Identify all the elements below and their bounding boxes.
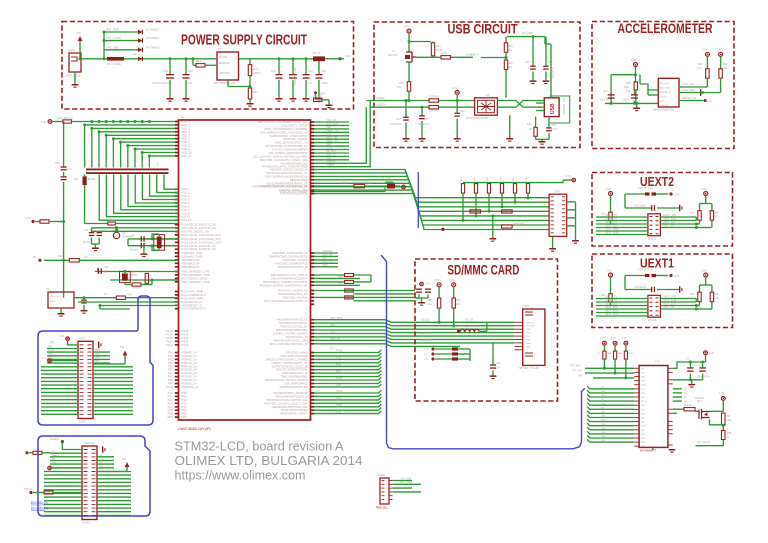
wire ext left rows [47, 348, 78, 350]
sd detect cluster [431, 347, 434, 350]
svg-text:UEXT_INT: UEXT_INT [663, 306, 675, 309]
section box UEXT1 [592, 254, 733, 328]
resistor R20 inline [502, 225, 512, 228]
svg-text:TFT: TFT [655, 360, 660, 364]
svg-text:+5V_J-LINK: +5V_J-LINK [106, 36, 121, 40]
resistor R42 [535, 117, 537, 128]
svg-text:PWR_SEL: PWR_SEL [376, 507, 388, 510]
connector PWR jack [69, 53, 81, 72]
svg-text:R20 100R: R20 100R [514, 224, 525, 226]
wire I2C2_SCL [679, 86, 707, 88]
svg-text:1uF: 1uF [496, 367, 501, 370]
svg-text:INT2 SDA: INT2 SDA [660, 87, 670, 90]
svg-text:PE7: PE7 [336, 369, 341, 373]
capacitor C44 [405, 101, 407, 117]
crystal Q2 [113, 232, 119, 238]
svg-text:PF1: PF1 [168, 354, 173, 358]
svg-text:PDR_ON/RESET_CTRL: PDR_ON/RESET_CTRL [182, 273, 211, 277]
wire bundle vdd staircase [85, 125, 175, 168]
svg-text:PC14-OSC32_IN(OSC32_IN): PC14-OSC32_IN(OSC32_IN) [182, 223, 216, 227]
svg-text:PB9: PB9 [95, 349, 100, 352]
svg-text:3.3V: 3.3V [434, 278, 440, 282]
svg-text:R34: R34 [714, 212, 719, 215]
power arrow VIN [78, 36, 83, 41]
svg-text:R16: R16 [342, 182, 347, 185]
svg-text:+5V_USB: +5V_USB [106, 45, 118, 49]
svg-text:VDD: VDD [526, 333, 531, 335]
svg-text:USBDP: USBDP [326, 163, 335, 167]
svg-text:PC14-OSC32_IN(OSC32_IN): PC14-OSC32_IN(OSC32_IN) [182, 226, 216, 230]
svg-text:3.3V: 3.3V [452, 327, 457, 329]
wire usb gnd [536, 138, 549, 140]
svg-text:PC10: PC10 [48, 349, 55, 352]
svg-text:PD2/WKUP/SDIO_D0/WKUP: PD2/WKUP/SDIO_D0/WKUP [274, 391, 308, 395]
svg-text:+5V_USB: +5V_USB [521, 31, 533, 35]
svg-text:ACCELEROMETER: ACCELEROMETER [618, 21, 713, 36]
regulator U2 [217, 52, 239, 80]
capacitor C50 [545, 37, 547, 66]
svg-text:PD0-OSC_IN(OSC_IN): PD0-OSC_IN(OSC_IN) [182, 230, 209, 234]
wire +5V_USB rail [507, 36, 545, 38]
terminal 3.3V UEXT2 right [704, 192, 708, 196]
usb section box [374, 22, 580, 148]
svg-text:VDD_6: VDD_6 [182, 137, 191, 141]
svg-text:DB10: DB10 [601, 420, 607, 422]
svg-text:UEXT_MOSI: UEXT_MOSI [605, 313, 619, 316]
resistor R14 [35, 221, 40, 223]
svg-text:VSS_7: VSS_7 [182, 208, 191, 212]
wire osc in row [92, 227, 179, 229]
svg-text:C41: C41 [626, 90, 631, 93]
svg-text:PD2: PD2 [330, 323, 336, 327]
svg-text:FET1: FET1 [697, 400, 704, 403]
capacitor UEXT2 100nF [625, 207, 651, 209]
svg-text:DB15: DB15 [601, 395, 607, 397]
wire bundle mcu right group8 sdmmc [314, 320, 514, 323]
svg-text:NA: NA [104, 270, 108, 273]
svg-text:NA NA: NA NA [83, 241, 90, 244]
svg-text:UEXT1_3.3V: UEXT1_3.3V [638, 268, 653, 272]
svg-text:100uF/6.3Vtant: 100uF/6.3Vtant [293, 67, 297, 85]
svg-text:STM32-LCD, board revision A: STM32-LCD, board revision A [175, 440, 345, 454]
ground ext [98, 342, 99, 348]
terminal 3.3V esd [455, 90, 459, 94]
svg-text:PB9: PB9 [95, 360, 100, 363]
wire bundle mcu right group10 stubs [314, 390, 381, 393]
svg-text:CD/DAT3: CD/DAT3 [526, 325, 536, 328]
power supply section box [62, 22, 354, 110]
svg-text:USBDP: USBDP [376, 96, 385, 100]
resistor R13 row [44, 259, 69, 261]
svg-text:D2: D2 [133, 52, 137, 56]
resistor UEXT2 left [610, 196, 612, 213]
svg-text:MC? BRC33R-3C: MC? BRC33R-3C [214, 81, 235, 85]
terminal usart dot [61, 440, 64, 443]
svg-text:R36: R36 [428, 299, 433, 302]
svg-text:C40: C40 [603, 90, 608, 93]
wire uext10 right rows [97, 456, 114, 458]
svg-text:SPI2: SPI2 [326, 142, 332, 146]
capacitor C30 [169, 59, 171, 74]
svg-text:SD_D3: SD_D3 [421, 319, 430, 322]
wire UEXT2 rows left [596, 216, 648, 218]
svg-text:R42: R42 [527, 123, 532, 126]
svg-text:VIN: VIN [76, 31, 81, 35]
svg-text:C22: C22 [104, 266, 109, 269]
svg-text:PF2: PF2 [168, 357, 173, 361]
svg-text:JTAG: JTAG [554, 190, 560, 194]
terminal power tft trio [603, 341, 607, 345]
blue route sd-tft [381, 255, 585, 449]
svg-text:NJTRST/SPI2/ADC12/OSC_IN: NJTRST/SPI2/ADC12/OSC_IN [272, 364, 308, 368]
svg-text:NJTRST: NJTRST [326, 149, 336, 153]
connector UEXT10 body [82, 446, 97, 520]
svg-text:GND NC: GND NC [660, 105, 669, 107]
svg-text:C30: C30 [163, 69, 168, 73]
resistor R36 [438, 287, 440, 298]
svg-text:3.3V: 3.3V [424, 349, 429, 351]
svg-text:UEXT_MOSI: UEXT_MOSI [605, 231, 619, 234]
svg-text:SD_CLK: SD_CLK [421, 339, 431, 342]
svg-text:SPI2/USART1_TX/FSMC_D7/NJTRST: SPI2/USART1_TX/FSMC_D7/NJTRST [263, 280, 308, 284]
svg-text:3.3V: 3.3V [424, 359, 429, 361]
svg-text:R39: R39 [508, 45, 513, 48]
svg-text:R37: R37 [456, 299, 461, 302]
capacitor C29 [141, 243, 142, 249]
svg-text:SB_WP/2: SB_WP/2 [381, 178, 392, 181]
svg-text:PG6: PG6 [168, 412, 174, 416]
svg-text:3.3V: 3.3V [621, 337, 626, 340]
wire osc out row [92, 230, 179, 232]
svg-text:PC15-OSC32_OUT(OSC32_OUT): PC15-OSC32_OUT(OSC32_OUT) [182, 240, 222, 244]
capacitor C52 [456, 94, 458, 112]
svg-text:TIM3_CH1/I2C1_SDA/PE9/PG7/TIM3: TIM3_CH1/I2C1_SDA/PE9/PG7/TIM3_CH1 [257, 120, 308, 124]
svg-text:USB_P: USB_P [470, 53, 479, 57]
svg-text:PC6: PC6 [326, 132, 332, 136]
resistor R39 [505, 37, 507, 43]
resistor UEXT1 left [610, 277, 612, 294]
svg-text:PE9/TRACECLK/OSC_IN/PF10: PE9/TRACECLK/OSC_IN/PF10 [271, 273, 308, 277]
resistor R40 [504, 60, 507, 70]
svg-text:SPI2: SPI2 [322, 263, 328, 267]
svg-text:RF-Y3_0KE: RF-Y3_0KE [107, 62, 121, 66]
svg-text:USBDM: USBDM [376, 103, 385, 107]
svg-text:TFT_RD: TFT_RD [572, 370, 582, 373]
svg-text:100n: 100n [85, 160, 87, 166]
svg-text:TRACECLK/ADC12/PG7: TRACECLK/ADC12/PG7 [279, 321, 308, 325]
connector UEXT2 header [648, 214, 661, 236]
blue box EXT [38, 296, 153, 425]
wire bundle mcu right group9 stubs [314, 350, 381, 353]
svg-text:VCC: VCC [641, 389, 646, 391]
terminal 3.3V UEXT2 left [609, 192, 613, 196]
svg-text:PA0: PA0 [322, 256, 327, 260]
svg-text:PB11/SDIO_D0/SPI2: PB11/SDIO_D0/SPI2 [283, 137, 308, 141]
svg-text:PF0/ADC_IN: PF0/ADC_IN [182, 351, 197, 355]
capacitor C36 [292, 59, 294, 74]
svg-text:WR: WR [641, 430, 645, 432]
svg-text:PB14: PB14 [336, 403, 343, 407]
resistor R29 [706, 56, 708, 68]
wire jtag right pins [567, 201, 576, 203]
svg-text:EXT: EXT [80, 336, 86, 340]
svg-text:VSS_3: VSS_3 [182, 194, 191, 198]
svg-text:OLIMEX LTD, BULGARIA 2014: OLIMEX LTD, BULGARIA 2014 [175, 454, 363, 468]
blue highlight jtag [417, 172, 419, 228]
svg-text:R7a: R7a [253, 67, 258, 71]
svg-text:PE9/SPI2/NJTRST/TIM3_CH1: PE9/SPI2/NJTRST/TIM3_CH1 [272, 405, 308, 409]
vref cluster [314, 290, 415, 292]
svg-text:PC14-OSC32_IN(OSC32_IN): PC14-OSC32_IN(OSC32_IN) [182, 247, 216, 251]
wire reset row [74, 297, 116, 299]
svg-text:PG14: PG14 [166, 343, 173, 347]
svg-text:MMA8452Q(HF5Q): MMA8452Q(HF5Q) [653, 109, 674, 112]
svg-text:PC15-OSC32_OUT(OSC32_OUT): PC15-OSC32_OUT(OSC32_OUT) [182, 233, 222, 237]
mcu U1 body [179, 120, 311, 420]
svg-text:C49: C49 [551, 124, 556, 127]
svg-text:POWER SUPPLY CIRCUIT: POWER SUPPLY CIRCUIT [181, 32, 307, 49]
svg-text:PF8/ADC_IN: PF8/ADC_IN [182, 378, 197, 382]
svg-text:1k5: 1k5 [508, 49, 513, 52]
wire TFT_LIGHT [696, 445, 724, 447]
svg-text:PC14-OSC32_IN(OSC32_IN): PC14-OSC32_IN(OSC32_IN) [182, 244, 216, 248]
terminal 3.3V uext10 [48, 466, 52, 470]
svg-text:BLM21: BLM21 [88, 178, 96, 181]
svg-text:CLK: CLK [526, 336, 531, 338]
svg-text:PB11/SDIO_D0/WKUP/PC6: PB11/SDIO_D0/WKUP/PC6 [275, 261, 308, 265]
svg-text:PG4: PG4 [182, 405, 188, 409]
svg-text:NA? B.1u: NA? B.1u [552, 67, 555, 78]
svg-text:VBAT/BACKUP: VBAT/BACKUP [182, 258, 200, 262]
svg-text:UEXT_INT: UEXT_INT [663, 224, 675, 227]
svg-text:PG7: PG7 [182, 415, 188, 419]
svg-text:PC6/USART1_TX/PD2: PC6/USART1_TX/PD2 [281, 123, 308, 127]
svg-text:MCX434XB-FT: MCX434XB-FT [640, 450, 657, 453]
connector JTAG [549, 194, 567, 236]
svg-text:TRACECLK/CAN_RX/CAN_RX/PF10: TRACECLK/CAN_RX/CAN_RX/PF10 [264, 378, 308, 382]
svg-text:4.7k: 4.7k [688, 216, 693, 219]
svg-text:PF0: PF0 [168, 351, 173, 355]
svg-text:PF7: PF7 [168, 375, 173, 379]
transistor FET tft [695, 410, 699, 412]
capacitor C16 [305, 59, 307, 74]
svg-text:PG6: PG6 [182, 412, 188, 416]
svg-text:VSS_10: VSS_10 [182, 218, 192, 222]
svg-text:I2C2_SDA: I2C2_SDA [683, 88, 696, 92]
svg-text:https://www.olimex.com: https://www.olimex.com [175, 468, 306, 482]
svg-text:G?: G? [330, 347, 334, 351]
svg-text:4.7u: 4.7u [67, 168, 72, 171]
svg-text:PD8: PD8 [336, 410, 342, 414]
capacitor C47 [421, 107, 423, 115]
svg-text:C3V_B: C3V_B [312, 51, 320, 55]
svg-text:3.3V: 3.3V [449, 278, 455, 282]
svg-text:R40: R40 [508, 62, 513, 65]
svg-text:PWR: PWR [68, 49, 76, 53]
svg-text:100nF 100nF: 100nF 100nF [697, 377, 711, 379]
svg-text:100n: 100n [92, 160, 94, 166]
svg-text:VSSA/ADC_GND: VSSA/ADC_GND [182, 251, 202, 255]
wire bundle tft stub rows [587, 386, 634, 389]
ground crystal [143, 249, 145, 254]
svg-text:3.3V: 3.3V [631, 58, 637, 62]
ferrite bead FB2 [313, 56, 325, 61]
svg-text:CAN_RX/TAMPER/ADC12/PG7: CAN_RX/TAMPER/ADC12/PG7 [271, 276, 308, 280]
svg-text:+5V_USB: +5V_USB [400, 477, 411, 480]
svg-text:NC: NC [684, 401, 688, 403]
capacitor C22 [97, 268, 99, 272]
svg-text:3.3V: 3.3V [719, 392, 724, 395]
svg-text:C16: C16 [308, 69, 313, 73]
ground osc caps [92, 243, 100, 245]
svg-text:PE8: PE8 [336, 383, 341, 387]
terminal 3.3V jtag [546, 180, 563, 183]
svg-text:PG7/WKUP/TIM3_CH1: PG7/WKUP/TIM3_CH1 [281, 161, 309, 165]
svg-text:TFT_RST: TFT_RST [570, 365, 581, 368]
svg-text:TAMPER/TIM3_CH1/TRACECLK: TAMPER/TIM3_CH1/TRACECLK [269, 254, 308, 258]
power arrow VIN uext10 [125, 462, 130, 467]
svg-text:U5: U5 [486, 93, 490, 97]
svg-text:PG13: PG13 [166, 329, 173, 333]
terminal 3.3V sd2 [452, 283, 456, 287]
svg-text:BGND(1): BGND(1) [31, 500, 48, 505]
wire usb vcc [544, 37, 546, 44]
svg-text:100n: 100n [157, 160, 159, 166]
sd connector [523, 309, 545, 365]
reset supervisor U4 [48, 292, 74, 308]
svg-text:PG15: PG15 [166, 336, 173, 340]
svg-text:PB11/PD2/PE9: PB11/PD2/PE9 [290, 178, 308, 182]
svg-text:0.1uF: 0.1uF [551, 128, 558, 131]
svg-text:CMD: CMD [526, 329, 531, 331]
svg-text:BH-10S: BH-10S [648, 237, 657, 240]
svg-text:PG3: PG3 [182, 401, 188, 405]
svg-text:3.3V: 3.3V [566, 175, 571, 178]
svg-text:PG3: PG3 [168, 401, 174, 405]
svg-text:PG2: PG2 [168, 398, 174, 402]
svg-text:100n: 100n [142, 160, 144, 166]
svg-text:B-A45: B-A45 [83, 522, 90, 525]
blue box UEXT10 [38, 436, 150, 516]
svg-text:PG14: PG14 [166, 332, 173, 336]
capacitor C51 [532, 37, 534, 66]
svg-text:C20: C20 [55, 162, 60, 165]
svg-text:PB11/TAMPER/PC6/ADC12: PB11/TAMPER/PC6/ADC12 [275, 394, 308, 398]
svg-text:R29: R29 [698, 63, 703, 66]
capacitor C38 [318, 59, 320, 74]
capacitor C28 [141, 236, 142, 242]
svg-text:BH-10S: BH-10S [648, 319, 657, 322]
wire bundle mcu right group6 boot [314, 274, 345, 276]
wire main rail [81, 58, 216, 60]
wire tft gnd row [673, 379, 703, 381]
resistor R37 [453, 287, 455, 298]
svg-text:C34: C34 [271, 69, 276, 73]
svg-text:PC15-ANTI_TAMP: PC15-ANTI_TAMP [182, 290, 204, 294]
wire usb conn pins [528, 100, 544, 102]
svg-text:PC14-WKUP2_IN: PC14-WKUP2_IN [182, 300, 203, 304]
resistor boot2 [345, 280, 354, 283]
svg-text:VSS_2: VSS_2 [182, 191, 191, 195]
svg-text:3.3V: 3.3V [709, 352, 714, 355]
svg-text:CTS2: CTS2 [99, 459, 105, 461]
resistor R7 divider [249, 59, 251, 65]
svg-text:C38: C38 [321, 69, 326, 73]
svg-text:B-A45: B-A45 [79, 421, 86, 424]
wire usb pullup [408, 33, 410, 42]
svg-text:100n: 100n [113, 160, 115, 166]
svg-text:3.3V: 3.3V [611, 337, 616, 340]
wire hse rows [95, 271, 179, 273]
svg-text:PB11/TIM3_CH1/PC6: PB11/TIM3_CH1/PC6 [282, 295, 308, 299]
svg-text:PG7/TIM3_CH1/SDIO_D0/I2C1_SDA: PG7/TIM3_CH1/SDIO_D0/I2C1_SDA [264, 401, 308, 405]
svg-text:VDDIO: VDDIO [660, 97, 667, 99]
svg-text:PA10: PA10 [51, 461, 57, 464]
svg-text:RST: RST [127, 294, 132, 297]
svg-text:3.3V: 3.3V [716, 48, 722, 52]
svg-text:TAMPER: TAMPER [322, 249, 333, 253]
resistors UEXT1 right pair [705, 277, 707, 285]
svg-text:PD0: PD0 [336, 363, 342, 367]
svg-text:0R: 0R [529, 128, 532, 131]
accelerometer section box [592, 22, 734, 149]
wire SENSE_INT [679, 100, 703, 102]
capacitor C19 [98, 230, 100, 233]
svg-text:PF2/ADC_IN: PF2/ADC_IN [182, 357, 197, 361]
terminal 3.3V left [31, 220, 34, 223]
svg-text:PG5: PG5 [168, 408, 174, 412]
svg-text:VCC: VCC [641, 409, 646, 411]
svg-text:PB9: PB9 [95, 353, 100, 356]
svg-text:C44: C44 [396, 118, 401, 121]
svg-text:3.3V: 3.3V [424, 354, 429, 356]
svg-text:4.7k: 4.7k [714, 297, 719, 300]
svg-text:PG0: PG0 [182, 391, 188, 395]
diode D4 [138, 48, 142, 52]
resistor pair rg7 [345, 289, 354, 292]
svg-text:NRST/RESET_IN: NRST/RESET_IN [182, 303, 203, 307]
svg-text:I2C1_SDA: I2C1_SDA [330, 316, 343, 320]
svg-text:3.3V: 3.3V [404, 24, 410, 28]
capacitor C18 [91, 228, 93, 232]
svg-text:GND TAB: GND TAB [219, 72, 230, 75]
svg-text:C.PF_2E: C.PF_2E [104, 219, 114, 222]
svg-text:CAN_RX: CAN_RX [322, 253, 333, 257]
svg-text:FSMC_D7: FSMC_D7 [326, 129, 339, 133]
svg-text:PF3: PF3 [168, 361, 173, 365]
svg-text:PF1/ADC_IN: PF1/ADC_IN [182, 354, 197, 358]
svg-text:USB CIRCUIT: USB CIRCUIT [448, 21, 518, 37]
svg-text:3.3V: 3.3V [674, 274, 680, 278]
svg-text:USART1: USART1 [50, 438, 60, 441]
wire USBDP [366, 100, 429, 102]
svg-text:PF10: PF10 [167, 385, 174, 389]
wire tft vcc cluster [673, 362, 706, 368]
svg-text:USART1_TX/PA0/USART1_TX: USART1_TX/PA0/USART1_TX [271, 361, 307, 365]
wire bundle jtag step [314, 170, 448, 198]
svg-text:1uF: 1uF [188, 81, 193, 85]
svg-text:PF7/ADC_IN: PF7/ADC_IN [182, 375, 197, 379]
svg-text:SD_D3: SD_D3 [465, 319, 474, 322]
svg-text:PF6: PF6 [168, 371, 173, 375]
svg-text:PG13: PG13 [166, 339, 173, 343]
svg-text:PD0: PD0 [336, 356, 342, 360]
mcu left pin stubs [175, 122, 179, 418]
svg-text:PD2/PC6/OSC_IN/PG7: PD2/PC6/OSC_IN/PG7 [280, 412, 308, 416]
svg-text:PF10: PF10 [326, 146, 333, 150]
terminal 3.3V UEXT1 left [609, 273, 613, 277]
svg-text:C35 100nF: C35 100nF [634, 286, 647, 289]
